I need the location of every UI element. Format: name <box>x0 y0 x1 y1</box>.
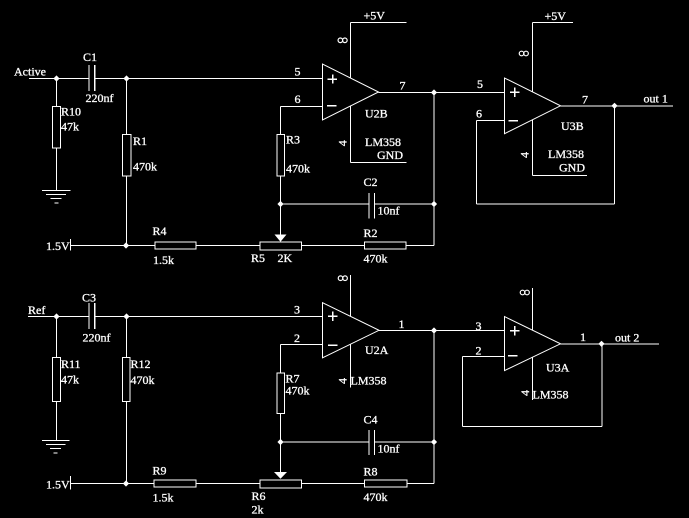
svg-text:220nf: 220nf <box>86 91 114 105</box>
svg-text:10nf: 10nf <box>378 204 400 218</box>
svg-text:Active: Active <box>14 65 46 79</box>
svg-text:2k: 2k <box>252 503 264 517</box>
svg-text:U3A: U3A <box>546 361 570 375</box>
svg-text:5: 5 <box>295 65 301 79</box>
svg-text:out 2: out 2 <box>615 331 639 345</box>
svg-text:C1: C1 <box>83 50 97 64</box>
svg-text:R10: R10 <box>61 105 81 119</box>
svg-text:10nf: 10nf <box>378 442 400 456</box>
svg-text:220nf: 220nf <box>83 331 111 345</box>
svg-text:1: 1 <box>580 330 586 344</box>
svg-text:GND: GND <box>559 161 585 175</box>
svg-text:470k: 470k <box>133 160 157 174</box>
svg-text:6: 6 <box>476 107 482 121</box>
svg-text:Ref: Ref <box>28 303 45 317</box>
svg-text:47k: 47k <box>61 120 79 134</box>
svg-text:470k: 470k <box>364 252 388 266</box>
svg-text:470k: 470k <box>286 384 310 398</box>
svg-text:2K: 2K <box>278 251 293 265</box>
svg-text:6: 6 <box>295 92 301 106</box>
svg-text:470k: 470k <box>364 490 388 504</box>
svg-text:LM358: LM358 <box>351 374 387 388</box>
svg-text:5: 5 <box>477 77 483 91</box>
svg-text:U3B: U3B <box>561 119 584 133</box>
svg-text:R8: R8 <box>364 465 378 479</box>
svg-text:7: 7 <box>582 93 588 107</box>
svg-text:4: 4 <box>336 378 350 384</box>
svg-text:R9: R9 <box>153 464 167 478</box>
svg-text:7: 7 <box>400 79 406 93</box>
svg-text:R12: R12 <box>131 357 151 371</box>
svg-text:C2: C2 <box>364 175 378 189</box>
svg-text:1.5k: 1.5k <box>153 253 174 267</box>
svg-text:2: 2 <box>294 331 300 345</box>
svg-text:4: 4 <box>518 152 532 158</box>
svg-text:1.5V: 1.5V <box>46 478 70 492</box>
svg-text:R3: R3 <box>286 133 300 147</box>
svg-text:C4: C4 <box>364 413 378 427</box>
svg-text:LM358: LM358 <box>548 147 584 161</box>
svg-text:3: 3 <box>294 303 300 317</box>
svg-text:U2A: U2A <box>365 343 389 357</box>
svg-text:2: 2 <box>476 344 482 358</box>
svg-text:1.5V: 1.5V <box>46 239 70 253</box>
svg-text:LM358: LM358 <box>365 135 401 149</box>
svg-text:LM358: LM358 <box>533 388 569 402</box>
svg-text:C3: C3 <box>82 291 96 305</box>
svg-text:3: 3 <box>476 319 482 333</box>
svg-text:out 1: out 1 <box>644 92 668 106</box>
svg-text:1: 1 <box>399 317 405 331</box>
svg-text:470k: 470k <box>286 162 310 176</box>
svg-text:1.5k: 1.5k <box>153 491 174 505</box>
svg-text:GND: GND <box>377 148 403 162</box>
svg-text:U2B: U2B <box>365 107 388 121</box>
svg-text:47k: 47k <box>61 373 79 387</box>
svg-text:+5V: +5V <box>364 9 386 23</box>
svg-text:470k: 470k <box>131 373 155 387</box>
svg-text:R11: R11 <box>61 357 81 371</box>
svg-text:R5: R5 <box>251 251 265 265</box>
svg-text:+5V: +5V <box>545 9 567 23</box>
svg-text:4: 4 <box>518 390 532 396</box>
svg-text:4: 4 <box>335 140 349 146</box>
svg-text:R6: R6 <box>252 489 266 503</box>
svg-text:R4: R4 <box>153 224 167 238</box>
svg-text:R2: R2 <box>364 226 378 240</box>
svg-text:R1: R1 <box>133 134 147 148</box>
